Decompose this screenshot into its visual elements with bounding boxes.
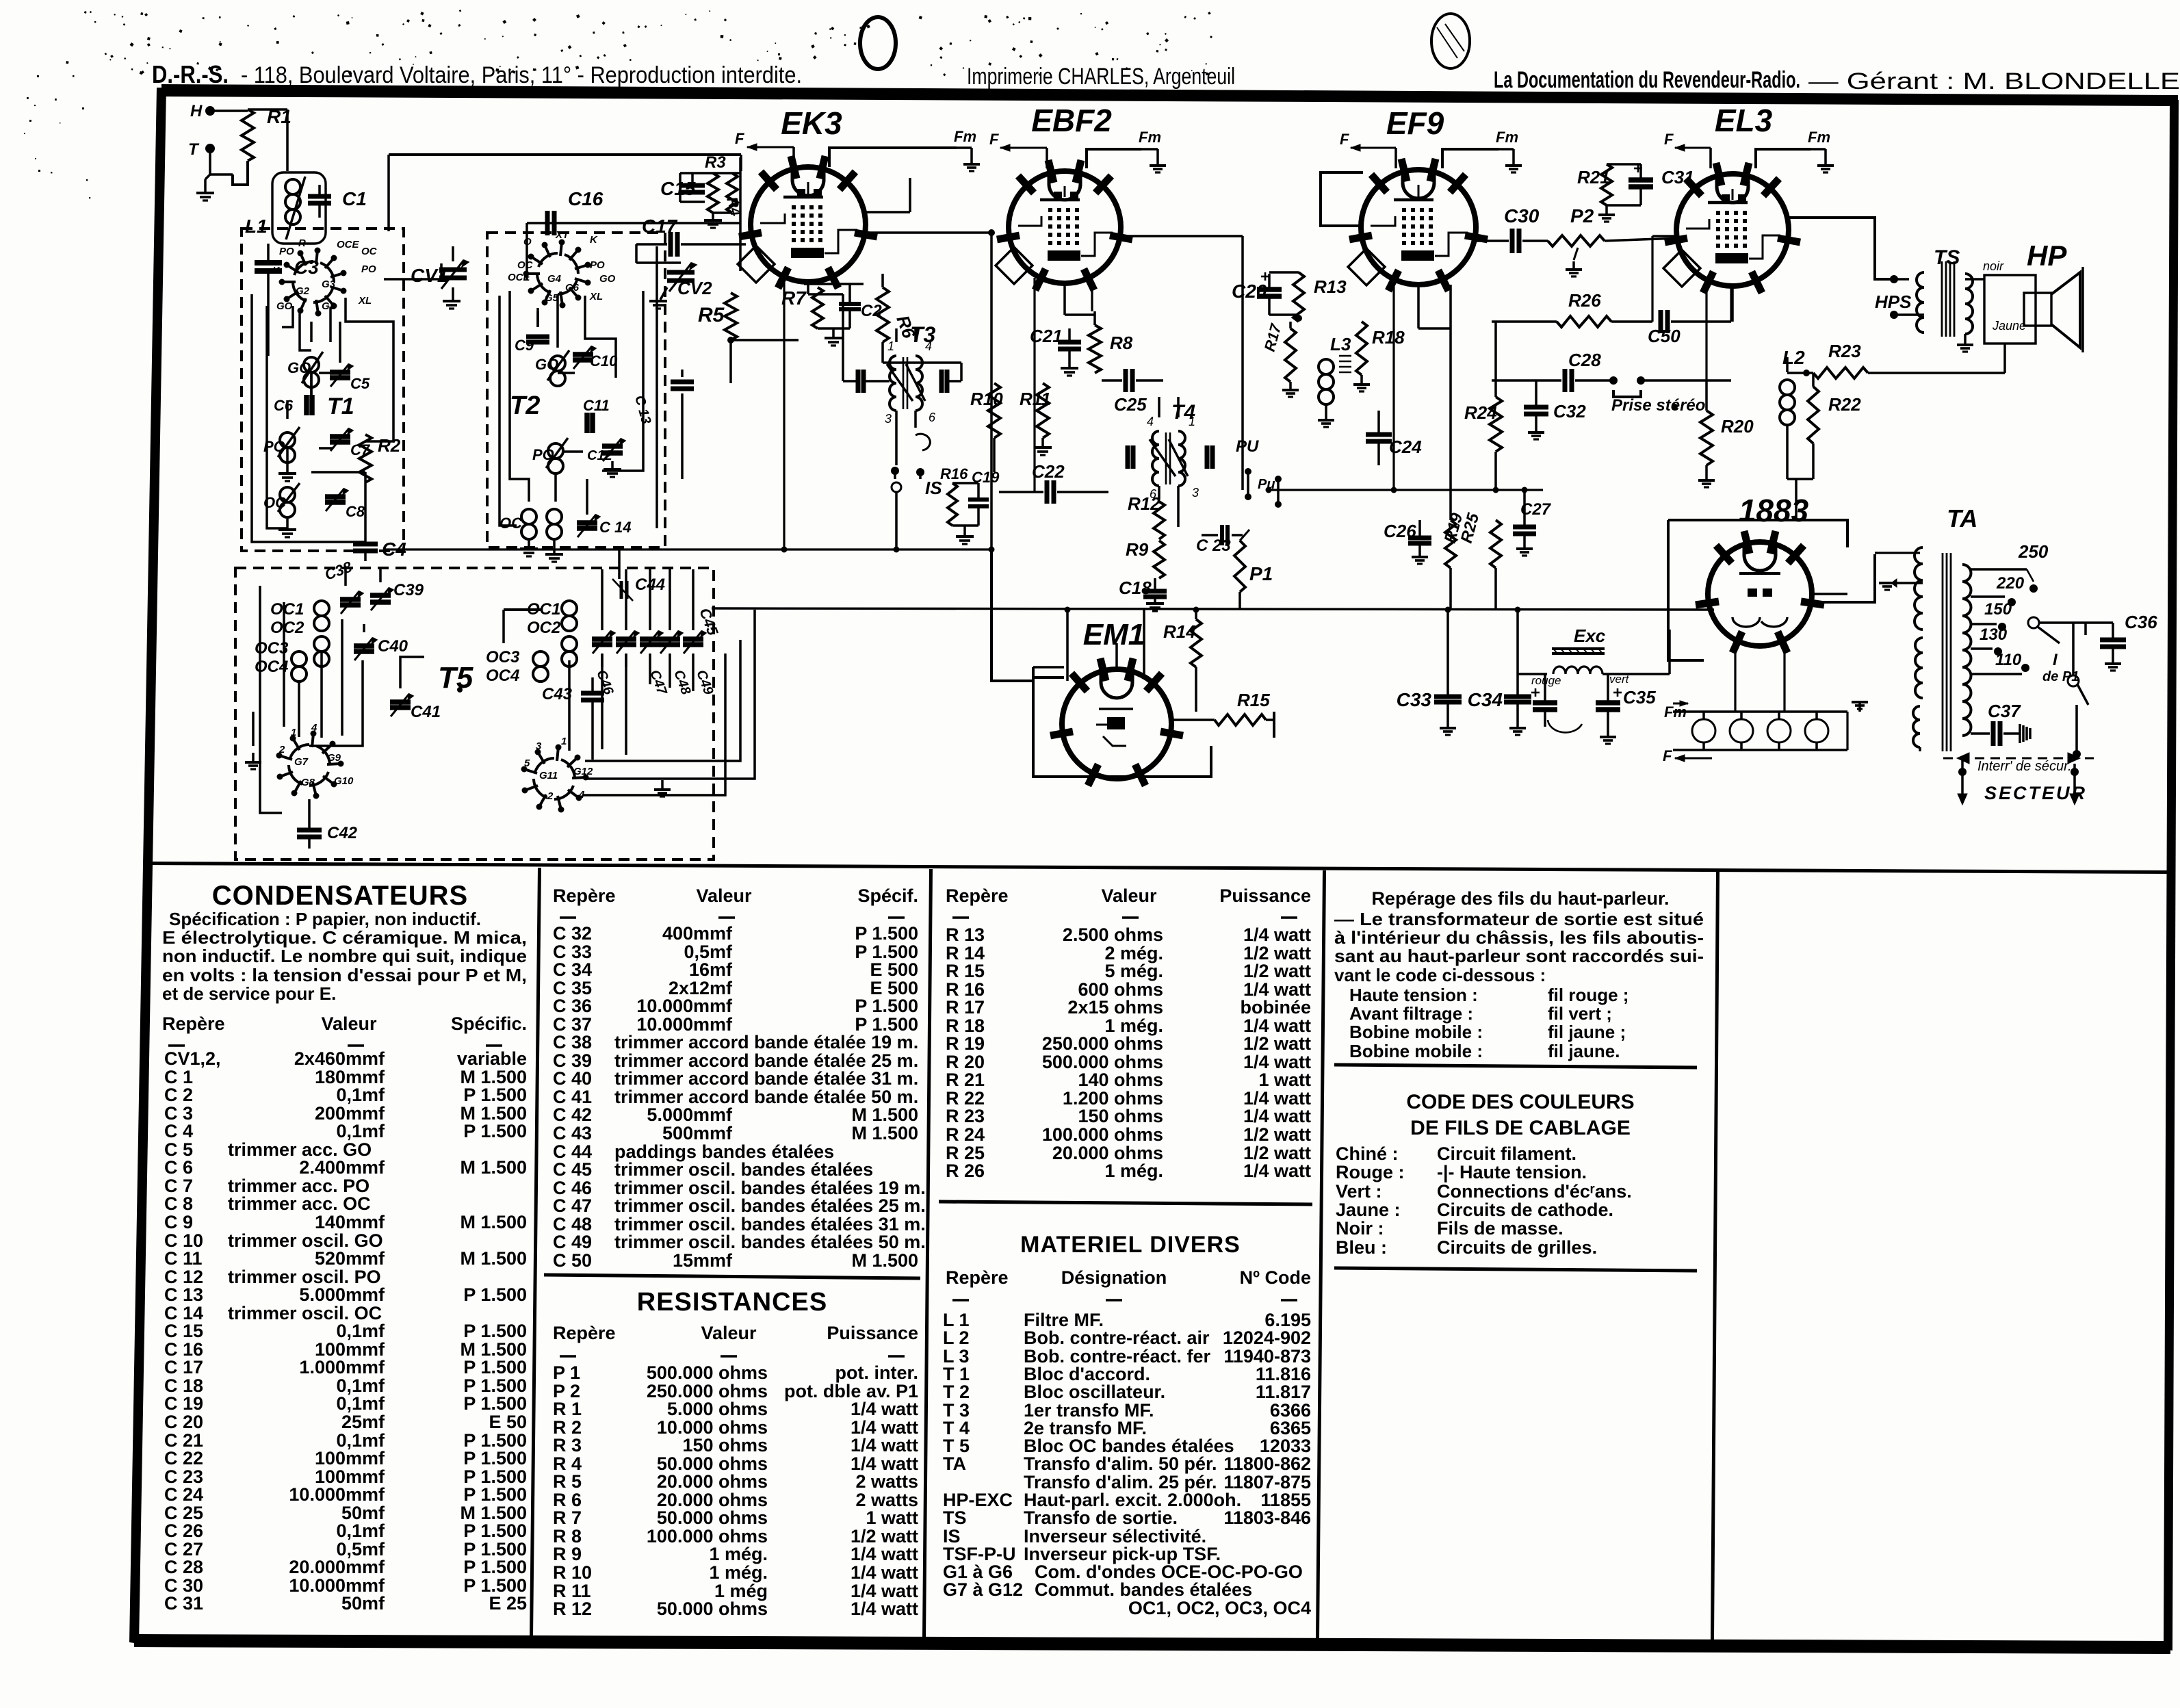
svg-text:C 34: C 34 <box>553 959 592 980</box>
potentiometer P1 <box>1234 541 1245 592</box>
coil slashes T1 <box>302 352 323 383</box>
svg-text:CV1,2,: CV1,2, <box>164 1048 221 1069</box>
table top rule <box>144 862 2170 874</box>
svg-text:50.000 ohms: 50.000 ohms <box>657 1508 768 1528</box>
ground CV2 <box>660 287 667 300</box>
svg-text:fil jaune ;: fil jaune ; <box>1548 1022 1626 1042</box>
svg-text:11800-862: 11800-862 <box>1223 1453 1311 1474</box>
svg-text:P 1.500: P 1.500 <box>463 1393 527 1414</box>
svg-text:Bobine mobile :: Bobine mobile : <box>1349 1022 1483 1042</box>
wire EF9 left loop <box>1321 172 1363 226</box>
trimmer C10 <box>573 352 593 357</box>
svg-text:Repère: Repère <box>946 1267 1009 1288</box>
svg-text:C35: C35 <box>1623 687 1656 708</box>
ground T5 left <box>252 753 255 761</box>
svg-text:G6: G6 <box>565 282 580 294</box>
svg-text:16mf: 16mf <box>689 959 733 980</box>
coil L3 <box>1319 359 1334 374</box>
svg-text:C25: C25 <box>1114 394 1147 415</box>
svg-text:C30: C30 <box>1504 205 1540 227</box>
svg-text:12024-902: 12024-902 <box>1223 1328 1311 1348</box>
svg-text:C 28: C 28 <box>164 1557 203 1577</box>
wire EF9 verticals <box>1392 281 1394 490</box>
svg-text:Noir :: Noir : <box>1336 1218 1384 1239</box>
variable capacitor CV1 <box>439 268 467 272</box>
ink scribble top middle <box>860 17 896 69</box>
svg-text:L2: L2 <box>1782 347 1805 368</box>
resistor R9 <box>1154 541 1165 578</box>
svg-text:R 26: R 26 <box>946 1161 985 1181</box>
svg-text:1/4 watt: 1/4 watt <box>851 1399 918 1419</box>
ground C36 <box>2105 662 2121 665</box>
svg-text:noir: noir <box>1983 259 2004 273</box>
svg-text:C 23: C 23 <box>1196 536 1231 555</box>
svg-text:500mmf: 500mmf <box>662 1123 733 1143</box>
svg-text:Fm: Fm <box>1664 703 1687 721</box>
resistor R21 <box>1601 164 1612 205</box>
wires T5 verticals <box>601 618 604 630</box>
svg-text:6: 6 <box>929 411 936 424</box>
table divider 2 <box>922 869 933 1638</box>
dial lamps <box>1692 719 1715 742</box>
svg-text:1 még.: 1 még. <box>709 1562 768 1583</box>
resistor R7 <box>812 287 823 328</box>
svg-text:1 még.: 1 még. <box>1104 1161 1163 1181</box>
wire T3 bottom bus <box>896 479 897 549</box>
svg-text:R 3: R 3 <box>553 1435 582 1455</box>
svg-text:C 4: C 4 <box>164 1121 193 1141</box>
svg-text:C5: C5 <box>350 375 370 392</box>
resistor R24 <box>1490 397 1502 452</box>
capacitor C6 <box>304 395 309 415</box>
svg-text:bobinée: bobinée <box>1240 997 1311 1018</box>
resistor R18 <box>1356 322 1367 375</box>
ground TA middle <box>1897 582 1923 584</box>
svg-text:C 15: C 15 <box>164 1321 203 1341</box>
svg-text:C 13: C 13 <box>164 1284 203 1305</box>
svg-text:OC2: OC2 <box>270 619 304 637</box>
svg-text:C 2: C 2 <box>164 1085 193 1105</box>
svg-text:C26: C26 <box>1384 521 1416 541</box>
svg-text:Spécific.: Spécific. <box>451 1013 527 1034</box>
svg-text:EL3: EL3 <box>1715 103 1773 138</box>
filament Fm EF9 <box>1442 149 1498 168</box>
svg-text:3: 3 <box>1192 486 1199 500</box>
wires T4 <box>1158 397 1160 417</box>
svg-text:1/2 watt: 1/2 watt <box>1243 1124 1311 1145</box>
svg-text:15mmf: 15mmf <box>673 1250 733 1271</box>
svg-text:C 9: C 9 <box>164 1212 193 1232</box>
scanner noise <box>24 10 1212 198</box>
trimmer row C46 C47 C48 C49 <box>592 636 612 642</box>
rule under R26 row <box>939 1202 1312 1204</box>
svg-text:Fils de masse.: Fils de masse. <box>1437 1218 1563 1239</box>
wires 1883 box <box>1668 520 1704 660</box>
capacitor C3 <box>255 260 282 266</box>
frame top bar <box>161 84 2178 106</box>
svg-text:Repère: Repère <box>946 885 1009 906</box>
svg-text:5.000mmf: 5.000mmf <box>647 1104 733 1125</box>
capacitor C13 <box>671 380 694 385</box>
svg-text:O: O <box>523 236 532 248</box>
wire EBF2 right pin <box>1120 235 1243 237</box>
wire EK3 bottom to T3 <box>807 282 809 294</box>
svg-text:R 23: R 23 <box>946 1106 985 1126</box>
svg-text:C 24: C 24 <box>164 1484 203 1505</box>
wire mesh T1 block <box>267 306 287 528</box>
svg-text:trimmer oscil. bandes étalées: trimmer oscil. bandes étalées <box>614 1159 873 1180</box>
svg-text:500.000 ohms: 500.000 ohms <box>647 1362 768 1383</box>
selector switch TA <box>2028 617 2039 628</box>
ground T5 right <box>661 780 664 788</box>
svg-text:R 7: R 7 <box>553 1508 582 1528</box>
coil GO of T1 <box>304 357 319 372</box>
junction dots buses <box>781 547 788 553</box>
svg-text:HPS: HPS <box>1875 292 1912 312</box>
ink scribble top right <box>1431 14 1470 68</box>
capacitor C11 <box>584 413 590 433</box>
svg-text:P 1.500: P 1.500 <box>855 996 918 1016</box>
svg-text:R 9: R 9 <box>553 1544 582 1564</box>
svg-text:Transfo d'alim. 50 pér.: Transfo d'alim. 50 pér. <box>1024 1453 1217 1474</box>
svg-text:C 36: C 36 <box>553 996 592 1016</box>
ground TS <box>1964 334 1967 344</box>
svg-text:M 1.500: M 1.500 <box>460 1248 527 1269</box>
svg-text:R 12: R 12 <box>553 1599 592 1619</box>
filament arrow F EF9 <box>1351 147 1396 149</box>
rule under Bleu row <box>1334 1268 1697 1271</box>
capacitor C15 <box>680 183 705 188</box>
wires L2 bottom <box>1786 426 1789 479</box>
svg-text:C 31: C 31 <box>164 1593 203 1614</box>
TA primary top winding <box>1915 547 1923 630</box>
svg-text:vant le code ci-dessous :: vant le code ci-dessous : <box>1334 965 1546 985</box>
ground C34 <box>1509 727 1526 729</box>
svg-text:1 watt: 1 watt <box>866 1508 918 1528</box>
svg-text:1/2 watt: 1/2 watt <box>1243 961 1311 981</box>
svg-text:C12: C12 <box>587 448 612 463</box>
svg-text:C 26: C 26 <box>164 1521 203 1541</box>
svg-text:C28: C28 <box>1568 350 1601 370</box>
rotary switch G7 <box>309 772 328 786</box>
svg-text:10.000mmf: 10.000mmf <box>289 1484 385 1505</box>
svg-text:RESISTANCES: RESISTANCES <box>637 1288 827 1317</box>
svg-text:en volts : la tension d'es: en volts : la tension d'essai pour P et … <box>162 965 527 985</box>
svg-text:Jaune: Jaune <box>1992 319 2026 333</box>
svg-text:1/4 watt: 1/4 watt <box>1243 1106 1311 1126</box>
resistor R2 <box>359 435 372 482</box>
resistor R6 <box>877 287 889 342</box>
coupling loop T3 <box>916 434 930 450</box>
coil GO of T2 <box>550 356 565 371</box>
svg-text:3: 3 <box>536 740 542 752</box>
svg-text:trimmer accord bande étalée 19: trimmer accord bande étalée 19 m. <box>614 1032 918 1052</box>
wire EM1 to bus <box>1066 610 1069 681</box>
capacitor C32 <box>1524 405 1548 410</box>
svg-text:TA: TA <box>1947 504 1977 532</box>
svg-text:C 17: C 17 <box>164 1357 203 1377</box>
svg-text:R16: R16 <box>940 465 968 482</box>
svg-text:T 2: T 2 <box>943 1382 970 1402</box>
svg-text:fil vert ;: fil vert ; <box>1548 1003 1612 1024</box>
capacitor C25 <box>1124 369 1128 392</box>
svg-text:C 42: C 42 <box>553 1104 592 1125</box>
svg-text:Bobine mobile :: Bobine mobile : <box>1349 1041 1483 1061</box>
svg-text:Repère: Repère <box>553 885 616 906</box>
svg-text:Exc: Exc <box>1574 625 1606 646</box>
table divider 1 <box>530 868 541 1637</box>
svg-text:C22: C22 <box>1032 461 1065 482</box>
svg-text:E 25: E 25 <box>489 1593 527 1614</box>
svg-text:OC2: OC2 <box>527 619 561 637</box>
svg-text:2.500 ohms: 2.500 ohms <box>1063 924 1163 945</box>
wire L1 to T1 block <box>267 311 270 356</box>
resistor R13 <box>1293 272 1304 322</box>
ground lamps <box>1858 703 1861 712</box>
resistor R1 <box>242 109 254 161</box>
capacitor C36 <box>2100 638 2126 643</box>
ground C21 <box>1068 361 1071 367</box>
svg-text:P 1.500: P 1.500 <box>463 1121 527 1141</box>
ground R18 <box>1353 383 1370 386</box>
svg-text:10.000mmf: 10.000mmf <box>636 996 733 1016</box>
capacitor T4 left <box>1126 445 1130 469</box>
wire T1 box to C4 <box>364 472 367 520</box>
trimmer C14 <box>577 520 597 526</box>
ground R17 <box>1289 382 1292 389</box>
filament arrow F EL3 <box>1675 147 1711 149</box>
svg-text:25mf: 25mf <box>341 1412 385 1432</box>
trimmer C38 <box>340 597 361 602</box>
bus wire middle long <box>712 608 1714 610</box>
svg-text:2: 2 <box>278 744 285 755</box>
svg-text:L3: L3 <box>1330 334 1351 354</box>
svg-text:P 1.500: P 1.500 <box>463 1321 527 1341</box>
svg-text:R26: R26 <box>1568 290 1601 311</box>
ground C35 <box>1600 736 1616 738</box>
svg-text:et de service pour E.: et de service pour E. <box>162 983 336 1004</box>
svg-text:K: K <box>590 234 598 246</box>
svg-text:C 19: C 19 <box>164 1393 203 1414</box>
svg-text:trimmer acc. OC: trimmer acc. OC <box>228 1193 371 1214</box>
trimmer C12 <box>602 443 623 449</box>
svg-text:L1: L1 <box>245 216 268 237</box>
svg-text:220: 220 <box>1996 574 2025 593</box>
svg-text:130: 130 <box>1980 625 2008 644</box>
terminal dots HPS <box>1890 275 1898 283</box>
svg-text:M 1.500: M 1.500 <box>851 1104 918 1125</box>
svg-text:1/4 watt: 1/4 watt <box>1243 1161 1311 1181</box>
ground L3 <box>1318 419 1334 422</box>
svg-text:Valeur: Valeur <box>321 1013 377 1034</box>
rule under C50 row <box>544 1275 920 1278</box>
filament Fm EK3 <box>829 148 957 167</box>
svg-text:EK3: EK3 <box>781 105 842 141</box>
svg-text:150 ohms: 150 ohms <box>1078 1106 1163 1126</box>
svg-text:250: 250 <box>2018 541 2049 562</box>
svg-text:C39: C39 <box>393 581 424 599</box>
svg-text:G7: G7 <box>294 756 309 768</box>
wires 1883 to lamps <box>1734 640 1736 712</box>
svg-text:F: F <box>1340 131 1349 148</box>
ground OC T2 <box>528 541 530 547</box>
svg-text:PO: PO <box>361 263 376 275</box>
svg-text:pot. inter.: pot. inter. <box>835 1362 919 1383</box>
switch IS <box>891 467 899 475</box>
svg-text:F: F <box>1663 747 1672 764</box>
svg-text:P 1: P 1 <box>553 1362 580 1383</box>
resistor R4 <box>727 173 738 213</box>
svg-text:20.000mmf: 20.000mmf <box>289 1557 385 1577</box>
svg-text:Puissance: Puissance <box>1219 885 1311 906</box>
trimmer C40 <box>354 643 374 649</box>
trimmer C5 <box>330 370 350 375</box>
svg-text:R12: R12 <box>1128 493 1160 514</box>
svg-text:M 1.500: M 1.500 <box>851 1250 918 1271</box>
svg-text:C20: C20 <box>1232 281 1267 302</box>
svg-text:Bloc oscillateur.: Bloc oscillateur. <box>1024 1382 1165 1402</box>
bus wire right middle <box>1269 489 1543 491</box>
svg-text:1/2 watt: 1/2 watt <box>1243 1033 1311 1054</box>
svg-text:0,1mf: 0,1mf <box>336 1121 385 1141</box>
svg-text:5 még.: 5 még. <box>1104 961 1163 981</box>
wires T3 <box>895 328 898 342</box>
svg-text:P2: P2 <box>1570 205 1594 227</box>
svg-text:trimmer accord bande étalée 31: trimmer accord bande étalée 31 m. <box>614 1068 918 1089</box>
svg-text:TA: TA <box>943 1453 966 1474</box>
svg-text:à l'intérieur du châssis,: à l'intérieur du châssis, les fils about… <box>1334 927 1704 948</box>
svg-text:Circuit filament.: Circuit filament. <box>1437 1143 1576 1164</box>
capacitor C23 <box>1220 525 1224 545</box>
svg-text:Repérage des fils du haut-: Repérage des fils du haut-parleur. <box>1371 888 1669 909</box>
capacitor C18 <box>1143 589 1167 594</box>
svg-text:— Le transformateur de sor: — Le transformateur de sortie est situé <box>1334 909 1704 929</box>
svg-text:1: 1 <box>1189 415 1195 428</box>
wire 1883 to TA <box>1815 554 1875 602</box>
svg-text:R8: R8 <box>1110 333 1133 353</box>
svg-text:C40: C40 <box>378 637 408 656</box>
svg-text:OC: OC <box>517 259 534 271</box>
svg-text:2x15 ohms: 2x15 ohms <box>1067 997 1163 1018</box>
resistor R19 <box>1445 520 1456 568</box>
resistor R23 <box>1813 367 1868 378</box>
svg-text:Jaune :: Jaune : <box>1336 1200 1401 1220</box>
capacitor C34 <box>1504 695 1531 699</box>
svg-text:Spécif.: Spécif. <box>857 885 918 906</box>
svg-text:C16: C16 <box>568 188 604 209</box>
svg-text:C18: C18 <box>1119 578 1152 598</box>
ground R3 <box>712 213 714 219</box>
svg-text:Fm: Fm <box>1139 129 1161 146</box>
svg-text:T1: T1 <box>327 393 354 419</box>
svg-text:Bob. contre-réact. air: Bob. contre-réact. air <box>1024 1328 1210 1348</box>
filament arrow F EBF2 <box>1000 147 1047 149</box>
svg-text:TS: TS <box>943 1508 967 1528</box>
ground R20 <box>1698 479 1715 482</box>
wire EBF2 bottom down <box>1063 283 1066 315</box>
svg-text:0,1mf: 0,1mf <box>336 1521 385 1541</box>
svg-text:XL: XL <box>358 295 372 307</box>
svg-text:SECTEUR: SECTEUR <box>1984 783 2087 803</box>
wires T5 risers to bus <box>618 549 621 579</box>
svg-text:C 14: C 14 <box>599 519 631 536</box>
bus wire left-middle <box>383 548 991 550</box>
svg-text:C 11: C 11 <box>164 1248 203 1269</box>
wire EF9 bottom down <box>1417 285 1420 328</box>
svg-text:trimmer oscil. bandes étalées: trimmer oscil. bandes étalées 50 m. <box>614 1232 926 1252</box>
svg-text:E électrolytique. C céramiq: E électrolytique. C céramique. M mica, <box>162 927 527 948</box>
capacitor C35 polarized <box>1596 700 1620 706</box>
svg-text:2x460mmf: 2x460mmf <box>294 1048 385 1069</box>
svg-text:C34: C34 <box>1468 689 1503 710</box>
svg-text:C37: C37 <box>1988 701 2021 721</box>
svg-text:C 8: C 8 <box>164 1193 193 1214</box>
svg-text:C11: C11 <box>583 397 610 414</box>
svg-text:1/4 watt: 1/4 watt <box>851 1599 918 1619</box>
svg-text:Fm: Fm <box>1496 129 1518 146</box>
svg-text:G12: G12 <box>573 766 593 777</box>
ground C33 <box>1440 727 1456 729</box>
svg-text:1 watt: 1 watt <box>1258 1070 1311 1090</box>
svg-text:1/4 watt: 1/4 watt <box>851 1435 918 1455</box>
TA primary mid winding <box>1915 638 1923 698</box>
svg-text:C 6: C 6 <box>164 1157 193 1178</box>
svg-text:-|- Haute tension.: -|- Haute tension. <box>1437 1162 1587 1182</box>
svg-text:Chiné :: Chiné : <box>1336 1143 1399 1164</box>
coil L2 <box>1780 380 1795 395</box>
capacitor C50 <box>1659 310 1663 333</box>
svg-text:4: 4 <box>311 722 317 734</box>
svg-text:E 500: E 500 <box>870 959 918 980</box>
svg-text:100mmf: 100mmf <box>315 1448 385 1468</box>
svg-text:C33: C33 <box>1397 689 1432 710</box>
wire EL3 cathode down <box>1731 287 1734 322</box>
svg-text:OC: OC <box>499 515 523 532</box>
capacitor C20 polarized <box>1257 287 1282 292</box>
capacitor C4 <box>353 542 378 547</box>
svg-text:R 10: R 10 <box>553 1562 592 1583</box>
svg-text:R 5: R 5 <box>553 1471 582 1492</box>
ground R11 <box>1041 438 1044 446</box>
capacitor C9 <box>526 335 549 339</box>
svg-text:3: 3 <box>885 412 892 426</box>
frame right bar <box>2164 100 2179 1651</box>
block T5 dashed box <box>235 568 714 859</box>
svg-text:C 50: C 50 <box>553 1250 592 1271</box>
capacitor T4 right <box>1205 445 1210 469</box>
svg-text:F: F <box>1664 131 1674 148</box>
svg-text:R24: R24 <box>1464 402 1497 423</box>
capacitor C27 <box>1513 525 1536 530</box>
filament Fm EBF2 <box>1087 149 1141 168</box>
coil OC of T2 pair <box>521 509 536 524</box>
svg-text:Rouge :: Rouge : <box>1336 1162 1405 1182</box>
svg-text:Circuits de grilles.: Circuits de grilles. <box>1437 1237 1597 1258</box>
svg-text:140mmf: 140mmf <box>315 1212 385 1232</box>
svg-text:C15: C15 <box>660 178 696 199</box>
svg-text:OC: OC <box>361 246 378 257</box>
wire R6 bottom <box>883 361 961 364</box>
svg-text:trimmer oscil. bandes étalées: trimmer oscil. bandes étalées 25 m. <box>614 1195 926 1216</box>
wire EL3 anode to TS <box>1787 218 1894 279</box>
svg-text:G9: G9 <box>327 752 341 764</box>
capacitor C43 <box>581 691 604 696</box>
svg-text:EM1: EM1 <box>1083 618 1145 651</box>
svg-text:R 21: R 21 <box>946 1070 985 1090</box>
capacitor C31 polarized <box>1628 177 1653 183</box>
rotary switch G4-G6 <box>558 281 577 294</box>
coil slashes T2 <box>547 350 569 380</box>
